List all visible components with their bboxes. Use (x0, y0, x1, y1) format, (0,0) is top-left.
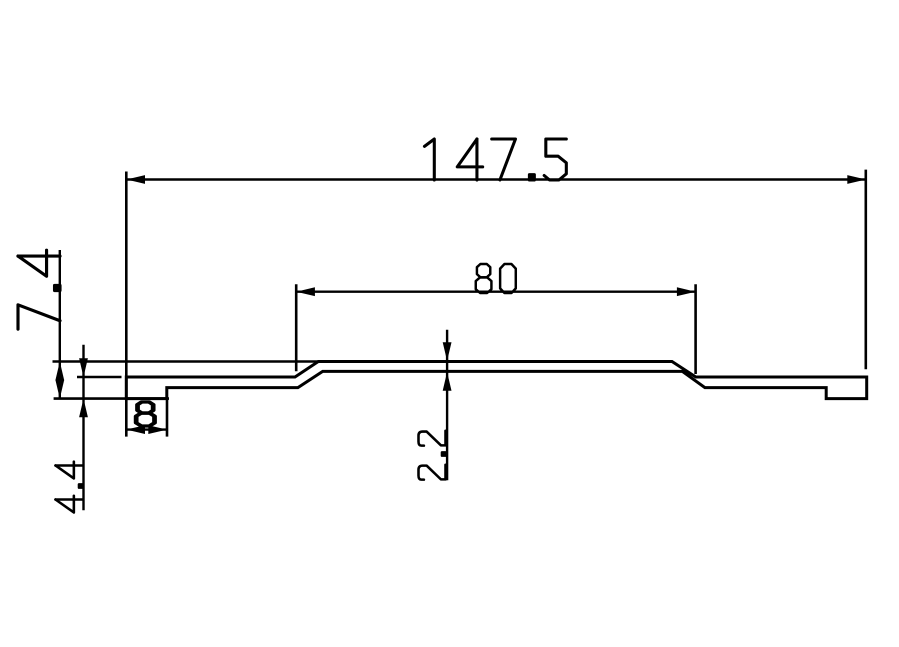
dimension 147.5 : left arrowhead (126, 175, 145, 184)
dimension 147.5 : dimension line (126, 178, 866, 180)
dimension 8 : right arrowhead (148, 425, 167, 434)
dimension 147.5 : left extension line (also profile left edge) (125, 172, 128, 437)
dimension 7.4 : text "7.4" (rotated) (18, 250, 60, 329)
dimension 7.4 : bottom extension line (bottom of end tab) (54, 397, 169, 400)
dimension 8 : right extension line (166, 399, 169, 437)
dimension 7.4 : top arrowhead (55, 362, 64, 381)
dimension 4.4 : text "4.4" (rotated) (56, 462, 83, 513)
dimension 8 : left arrowhead (126, 425, 145, 434)
dimension 147.5 : text "147.5" (424, 139, 566, 180)
dimension 8 : dimension line (126, 428, 167, 430)
dimension 80 : right extension line (694, 284, 697, 374)
dimension 4.4 : lower arrowhead (79, 399, 88, 418)
profile outline (panel cross-section) (126, 362, 866, 399)
dimension 7.4 : dimension line (59, 250, 61, 399)
dimension 7.4 : bottom arrowhead (55, 380, 64, 399)
dimension 2.2 : lower arrowhead (443, 372, 452, 391)
dimension 80 : dimension line (296, 291, 695, 293)
dimension 147.5 : right extension line (864, 170, 867, 370)
dimension 147.5 : right arrowhead (847, 175, 866, 184)
dimension 80 : text "80" (476, 264, 516, 293)
dimension 80 : left extension line (295, 284, 298, 371)
dimension 4.4 : upper arrowhead (79, 358, 88, 377)
dimension 2.2 : text "2.2" (rotated) (419, 431, 446, 480)
dimension 2.2 : dimension line (446, 330, 448, 481)
dimension 7.4 : top extension line (top of raised centre) (53, 360, 319, 363)
dimension 80 : left arrowhead (296, 287, 315, 296)
dimension 8 : text "8" (136, 402, 154, 426)
dimension 2.2 : upper arrowhead (443, 342, 452, 361)
dimension 4.4 : dimension line (82, 345, 84, 511)
dimension 4.4 : extension dash (top of wing) (77, 376, 122, 379)
dimension 80 : right arrowhead (677, 287, 696, 296)
